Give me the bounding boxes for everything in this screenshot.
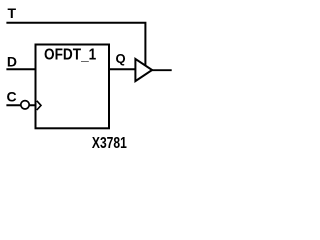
svg-text:Q: Q (116, 51, 126, 66)
flip-flop U1 OFDT_1 body (36, 45, 110, 129)
wire C input (6, 104, 36, 106)
svg-text:T: T (8, 5, 17, 21)
wire T to buffer enable (6, 23, 145, 67)
wire D input (6, 68, 36, 70)
wire output (151, 69, 172, 71)
clock wedge on C (37, 101, 41, 110)
svg-text:X3781: X3781 (92, 134, 127, 152)
svg-text:C: C (7, 88, 17, 104)
wire Q to buffer (109, 68, 136, 70)
svg-text:OFDT_1: OFDT_1 (44, 47, 96, 64)
inversion bubble on C (21, 101, 29, 109)
tristate buffer (135, 59, 152, 81)
svg-text:D: D (7, 53, 17, 69)
